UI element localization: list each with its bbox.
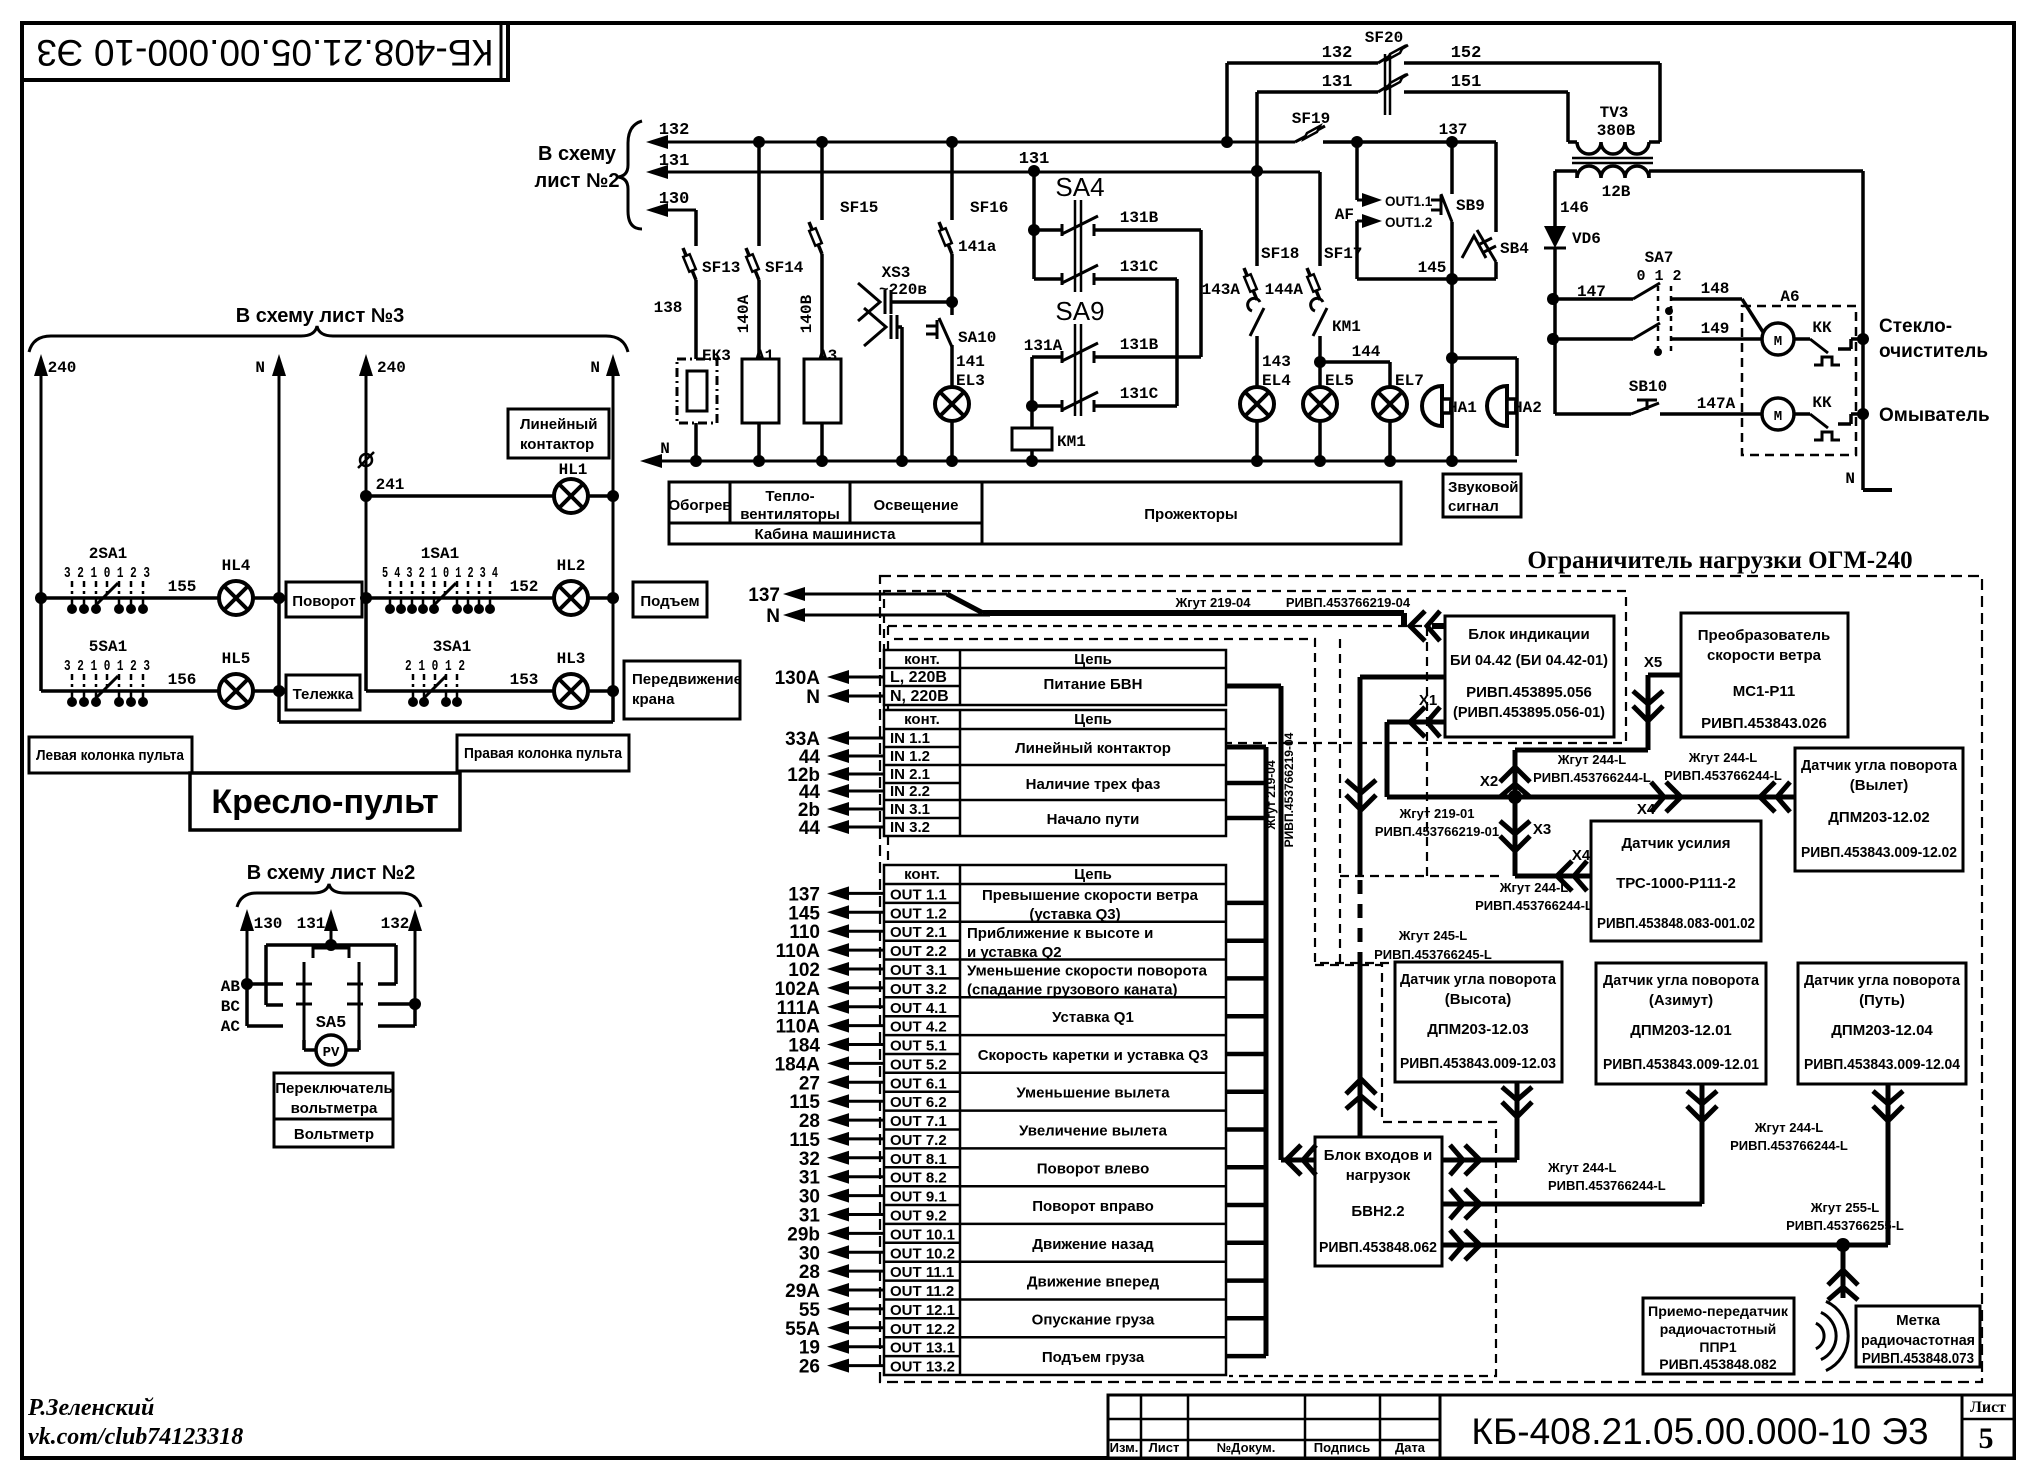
- svg-text:А3: А3: [818, 347, 837, 365]
- svg-text:149: 149: [1701, 320, 1730, 338]
- svg-text:152: 152: [1451, 44, 1482, 63]
- svg-text:Линейный: Линейный: [520, 416, 597, 433]
- svg-text:НА2: НА2: [1513, 399, 1542, 417]
- wire 132 bus: [662, 141, 1295, 144]
- svg-text:184: 184: [788, 1036, 820, 1057]
- svg-text:SF14: SF14: [765, 259, 804, 277]
- svg-text:OUT 9.1: OUT 9.1: [890, 1189, 947, 1206]
- break symbol on 240 bus: [358, 452, 374, 468]
- wire 145: [1357, 277, 1496, 281]
- svg-text:5 4 3 2 1 0 1 2 3 4: 5 4 3 2 1 0 1 2 3 4: [382, 565, 498, 582]
- connector X3: [1513, 797, 1518, 876]
- svg-text:SF20: SF20: [1365, 29, 1403, 47]
- wire N bus2: [612, 370, 615, 722]
- svg-text:РИВП.453766244-L: РИВП.453766244-L: [1730, 1138, 1848, 1153]
- svg-text:SB10: SB10: [1629, 378, 1667, 396]
- svg-text:№Докум.: №Докум.: [1217, 1440, 1276, 1455]
- breaker SF13: [694, 222, 698, 246]
- svg-text:102: 102: [788, 960, 820, 981]
- wire 151: [1404, 90, 1568, 94]
- svg-text:OUT 2.1: OUT 2.1: [890, 924, 947, 941]
- svg-text:В схему лист №2: В схему лист №2: [247, 862, 415, 884]
- svg-text:Жгут 244-L: Жгут 244-L: [1499, 880, 1569, 895]
- svg-text:130: 130: [659, 190, 690, 209]
- svg-text:OUT 12.2: OUT 12.2: [890, 1321, 955, 1338]
- angle sensor Put box: [1798, 963, 1966, 1084]
- svg-text:PV: PV: [323, 1045, 340, 1061]
- svg-text:В схему: В схему: [538, 143, 617, 165]
- dashed box C: [894, 639, 1502, 963]
- lamp EL4: [1240, 387, 1274, 421]
- node on 132 for SF15: [816, 136, 828, 148]
- node 131 for SA4: [1028, 165, 1040, 177]
- svg-text:SF13: SF13: [702, 259, 740, 277]
- svg-text:X3: X3: [1533, 821, 1551, 838]
- svg-text:Стекло-: Стекло-: [1879, 316, 1952, 337]
- svg-text:32: 32: [799, 1149, 820, 1170]
- svg-text:OUT 3.1: OUT 3.1: [890, 962, 947, 979]
- svg-text:131С: 131С: [1120, 258, 1159, 276]
- trolley mode box: [286, 675, 360, 710]
- svg-text:АС: АС: [221, 1018, 241, 1036]
- harness 219-04 lead: [947, 594, 983, 613]
- svg-text:ППР1: ППР1: [1699, 1339, 1736, 1355]
- svg-text:(Путь): (Путь): [1859, 992, 1905, 1009]
- svg-text:Опускание груза: Опускание груза: [1032, 1311, 1155, 1328]
- sheet code box (rotated title top-left): [22, 23, 508, 80]
- wire 12V secondary: [1575, 171, 1579, 178]
- svg-text:М: М: [1774, 334, 1782, 350]
- svg-text:РИВП.453766245-L: РИВП.453766245-L: [1374, 947, 1492, 962]
- breaker SF17: [1318, 172, 1322, 242]
- svg-text:КБ-408.21.05.00.000-10 Э3: КБ-408.21.05.00.000-10 Э3: [36, 32, 493, 73]
- svg-text:Ограничитель нагрузки ОГМ-240: Ограничитель нагрузки ОГМ-240: [1527, 547, 1912, 574]
- svg-text:OUT 3.2: OUT 3.2: [890, 981, 947, 998]
- button SB9: [1450, 142, 1454, 194]
- svg-text:Звуковой: Звуковой: [1448, 479, 1518, 496]
- linear contactor label box: [508, 409, 609, 458]
- svg-text:3 2 1 0 1 2 3: 3 2 1 0 1 2 3: [64, 658, 150, 675]
- svg-text:144: 144: [1352, 343, 1381, 361]
- svg-text:ЕК3: ЕК3: [702, 347, 731, 365]
- svg-text:OUT 8.1: OUT 8.1: [890, 1151, 947, 1168]
- svg-text:55А: 55А: [785, 1319, 820, 1340]
- svg-text:РИВП.453766219-04: РИВП.453766219-04: [1282, 732, 1296, 847]
- svg-text:РИВП.453843.026: РИВП.453843.026: [1701, 715, 1827, 732]
- svg-text:146: 146: [1560, 199, 1589, 217]
- svg-text:ТРС-1000-Р111-2: ТРС-1000-Р111-2: [1616, 875, 1736, 892]
- voltmeter PV: [316, 1035, 346, 1065]
- svg-text:132: 132: [381, 915, 410, 933]
- wire 149: [1672, 337, 1762, 341]
- svg-text:N: N: [255, 359, 265, 377]
- svg-text:Кресло-пульт: Кресло-пульт: [211, 783, 438, 821]
- thermal contact KK2: [1794, 412, 1810, 416]
- svg-text:нагрузок: нагрузок: [1346, 1167, 1411, 1184]
- svg-text:132: 132: [1322, 44, 1353, 63]
- svg-text:X4: X4: [1572, 847, 1591, 864]
- svg-text:N, 220В: N, 220В: [890, 688, 949, 705]
- svg-text:XS3: XS3: [882, 264, 911, 282]
- wire 132 to SF20: [1221, 136, 1233, 148]
- svg-text:МС1-Р11: МС1-Р11: [1733, 683, 1796, 700]
- svg-text:Блок индикации: Блок индикации: [1468, 626, 1590, 643]
- svg-text:29А: 29А: [785, 1281, 820, 1302]
- svg-text:SB9: SB9: [1456, 197, 1485, 215]
- svg-text:РИВП.453848.073: РИВП.453848.073: [1862, 1350, 1974, 1367]
- svg-text:SA7: SA7: [1645, 249, 1674, 267]
- svg-text:Прожекторы: Прожекторы: [1144, 506, 1237, 523]
- svg-text:РИВП.453843.009-12.04: РИВП.453843.009-12.04: [1804, 1056, 1961, 1073]
- svg-text:SF15: SF15: [840, 199, 878, 217]
- svg-text:140А: 140А: [735, 294, 753, 333]
- svg-text:Датчик угла поворота: Датчик угла поворота: [1603, 972, 1760, 989]
- sheet number box: [1961, 1395, 1964, 1458]
- svg-text:240: 240: [48, 359, 77, 377]
- wire N to OGM: [799, 614, 990, 617]
- svg-text:SA10: SA10: [958, 329, 996, 347]
- contactor coil KM1: [1030, 406, 1034, 428]
- wire 137 segment: [1323, 140, 1496, 144]
- svg-text:Датчик угла поворота: Датчик угла поворота: [1801, 757, 1958, 774]
- svg-text:HL2: HL2: [557, 557, 586, 575]
- svg-text:26: 26: [799, 1357, 820, 1378]
- svg-text:радиочастотная: радиочастотная: [1861, 1332, 1975, 1349]
- svg-text:Подъем груза: Подъем груза: [1042, 1349, 1145, 1366]
- svg-text:Дата: Дата: [1395, 1440, 1426, 1455]
- svg-text:OUT 10.2: OUT 10.2: [890, 1245, 955, 1262]
- svg-text:НА1: НА1: [1448, 399, 1477, 417]
- svg-text:31: 31: [799, 1168, 821, 1189]
- svg-text:Тепло-: Тепло-: [765, 488, 814, 505]
- svg-text:OUT1.1: OUT1.1: [1385, 194, 1433, 209]
- svg-text:27: 27: [799, 1073, 820, 1094]
- svg-text:N: N: [806, 687, 820, 708]
- wire 140A: [757, 280, 761, 359]
- svg-text:скорости ветра: скорости ветра: [1707, 647, 1822, 664]
- svg-text:Увеличение вылета: Увеличение вылета: [1019, 1123, 1168, 1140]
- svg-text:115: 115: [789, 1130, 820, 1151]
- svg-text:130: 130: [254, 915, 283, 933]
- svg-text:Уменьшение вылета: Уменьшение вылета: [1016, 1085, 1170, 1102]
- switch SA10: [950, 302, 954, 315]
- svg-text:Линейный контактор: Линейный контактор: [1015, 740, 1171, 757]
- svg-text:132: 132: [659, 121, 690, 140]
- svg-text:131А: 131А: [1024, 337, 1063, 355]
- svg-text:N: N: [1845, 470, 1855, 488]
- svg-text:131В: 131В: [1120, 336, 1159, 354]
- svg-text:Питание БВН: Питание БВН: [1044, 676, 1143, 693]
- heater EK3: [677, 359, 717, 423]
- svg-text:РИВП.453848.082: РИВП.453848.082: [1659, 1356, 1777, 1372]
- horn HA1: [1450, 358, 1454, 461]
- svg-text:3 2 1 0 1 2 3: 3 2 1 0 1 2 3: [64, 565, 150, 582]
- wire 148: [1672, 297, 1742, 301]
- wire 240 bus2: [365, 370, 368, 691]
- svg-text:3SA1: 3SA1: [433, 638, 471, 656]
- block A6 dashed: [1742, 306, 1856, 455]
- dashed box B: [888, 626, 1427, 881]
- svg-text:153: 153: [510, 671, 539, 689]
- svg-text:OUT 6.2: OUT 6.2: [890, 1094, 947, 1111]
- svg-text:контактор: контактор: [520, 436, 594, 453]
- svg-text:РИВП.453766219-01: РИВП.453766219-01: [1375, 824, 1499, 839]
- svg-text:вольтметра: вольтметра: [291, 1100, 378, 1117]
- svg-text:HL3: HL3: [557, 650, 586, 668]
- svg-text:Жгут 219-04: Жгут 219-04: [1174, 595, 1251, 610]
- svg-text:SB4: SB4: [1500, 240, 1529, 258]
- svg-text:РИВП.453843.009-12.03: РИВП.453843.009-12.03: [1400, 1055, 1556, 1072]
- svg-text:SF18: SF18: [1261, 245, 1299, 263]
- svg-text:Жгут 244-L: Жгут 244-L: [1688, 750, 1758, 765]
- svg-text:КК: КК: [1812, 319, 1832, 337]
- svg-text:РИВП.453766244-L: РИВП.453766244-L: [1475, 898, 1593, 913]
- svg-text:OUT 1.2: OUT 1.2: [890, 905, 947, 922]
- svg-text:L, 220В: L, 220В: [890, 669, 947, 686]
- crane travel box: [624, 661, 740, 719]
- svg-text:OUT 8.2: OUT 8.2: [890, 1170, 947, 1187]
- svg-text:РИВП.453843.009-12.01: РИВП.453843.009-12.01: [1603, 1056, 1759, 1073]
- svg-text:131С: 131С: [1120, 385, 1159, 403]
- svg-text:OUT 9.2: OUT 9.2: [890, 1207, 947, 1224]
- svg-text:OUT 12.1: OUT 12.1: [890, 1302, 955, 1319]
- svg-text:Скорость каретки и уставка Q3: Скорость каретки и уставка Q3: [978, 1047, 1209, 1064]
- switch SB4: [1494, 142, 1498, 232]
- svg-text:Поворот влево: Поворот влево: [1037, 1160, 1149, 1177]
- wire 152a: [510, 596, 554, 600]
- relay output AF: [1355, 142, 1359, 200]
- cab equipment table: [669, 482, 1401, 544]
- svg-text:КК: КК: [1812, 394, 1832, 412]
- svg-text:Правая колонка пульта: Правая колонка пульта: [464, 745, 623, 762]
- svg-text:156: 156: [168, 671, 197, 689]
- svg-text:Блок входов и: Блок входов и: [1324, 1147, 1432, 1164]
- svg-text:конт.: конт.: [904, 711, 940, 728]
- svg-text:Переключатель: Переключатель: [275, 1080, 393, 1097]
- svg-text:130А: 130А: [775, 668, 821, 689]
- svg-text:OUT 4.2: OUT 4.2: [890, 1019, 947, 1036]
- svg-text:А1: А1: [755, 347, 774, 365]
- svg-text:OUT 10.1: OUT 10.1: [890, 1226, 955, 1243]
- harness bus 219-04 vertical: [1226, 684, 1281, 689]
- wire N bus1: [278, 370, 281, 722]
- svg-text:Поворот вправо: Поворот вправо: [1032, 1198, 1154, 1215]
- svg-text:138: 138: [654, 299, 683, 317]
- svg-text:137: 137: [1439, 121, 1468, 139]
- svg-text:OUT 1.1: OUT 1.1: [890, 886, 947, 903]
- svg-text:184А: 184А: [775, 1054, 821, 1075]
- force sensor box: [1591, 821, 1761, 941]
- svg-text:Кабина машиниста: Кабина машиниста: [754, 526, 896, 543]
- svg-text:(Высота): (Высота): [1445, 991, 1511, 1008]
- svg-text:OUT 6.1: OUT 6.1: [890, 1075, 947, 1092]
- svg-text:X2: X2: [1480, 773, 1498, 790]
- contactor contact KM1.1: [1248, 298, 1260, 311]
- svg-text:Вольтметр: Вольтметр: [294, 1126, 374, 1143]
- svg-text:Передвижение: Передвижение: [632, 671, 742, 688]
- svg-text:28: 28: [799, 1262, 820, 1283]
- wire N right: [1861, 171, 1865, 490]
- svg-text:31: 31: [799, 1205, 821, 1226]
- breaker SF18: [1255, 171, 1259, 242]
- svg-text:OUT 11.2: OUT 11.2: [890, 1283, 954, 1300]
- svg-text:140В: 140В: [798, 294, 816, 333]
- sound signal box: [1443, 474, 1521, 517]
- svg-text:X4: X4: [1637, 801, 1656, 818]
- svg-text:IN 1.1: IN 1.1: [890, 730, 930, 747]
- svg-text:Датчик угла поворота: Датчик угла поворота: [1804, 972, 1961, 989]
- svg-text:Цепь: Цепь: [1074, 651, 1112, 668]
- harness X4 to Vylet: [1515, 795, 1795, 800]
- svg-text:Жгут 244-L: Жгут 244-L: [1557, 752, 1627, 767]
- svg-text:145: 145: [788, 903, 820, 924]
- svg-text:5: 5: [1979, 1422, 1994, 1455]
- svg-text:N: N: [766, 606, 780, 627]
- svg-text:Жгут 255-L: Жгут 255-L: [1810, 1200, 1880, 1215]
- node X2: [1508, 790, 1522, 804]
- svg-text:(Вылет): (Вылет): [1850, 777, 1908, 794]
- hoist mode box: [633, 582, 707, 617]
- svg-text:115: 115: [789, 1092, 820, 1113]
- wire 138: [694, 280, 698, 359]
- svg-text:137: 137: [788, 884, 820, 905]
- svg-text:SA4: SA4: [1055, 172, 1104, 202]
- wire 240 left bus: [40, 370, 43, 598]
- transceiver PPR1 box: [1643, 1298, 1794, 1374]
- svg-text:EL4: EL4: [1262, 372, 1291, 390]
- svg-text:OUT 5.2: OUT 5.2: [890, 1056, 947, 1073]
- svg-text:РИВП.453766219-04: РИВП.453766219-04: [1286, 595, 1411, 610]
- horn HA2: [1452, 356, 1517, 360]
- svg-text:Метка: Метка: [1896, 1312, 1940, 1329]
- svg-text:Поворот: Поворот: [292, 593, 355, 610]
- seat console box: [190, 773, 460, 830]
- wire 140B: [820, 254, 824, 359]
- wire 147A: [1660, 412, 1762, 416]
- svg-text:240: 240: [377, 359, 406, 377]
- svg-text:Превышение скорости ветра: Превышение скорости ветра: [982, 887, 1199, 904]
- svg-text:Уменьшение скорости поворота: Уменьшение скорости поворота: [967, 963, 1208, 980]
- svg-text:Движение назад: Движение назад: [1032, 1236, 1154, 1253]
- svg-text:55: 55: [799, 1300, 821, 1321]
- svg-text:(РИВП.453895.056-01): (РИВП.453895.056-01): [1453, 704, 1605, 721]
- diode VD6: [1544, 226, 1566, 248]
- svg-text:М: М: [1774, 409, 1782, 425]
- wire 130 up: [246, 925, 249, 984]
- wire 152: [1404, 61, 1660, 65]
- angle sensor Azimut box: [1596, 963, 1766, 1084]
- svg-text:РИВП.453766244-L: РИВП.453766244-L: [1548, 1178, 1666, 1193]
- svg-text:Лист: Лист: [1149, 1440, 1180, 1455]
- svg-text:IN 3.1: IN 3.1: [890, 801, 930, 818]
- block indication box: [1445, 616, 1614, 737]
- svg-text:РИВП.453848.083-001.02: РИВП.453848.083-001.02: [1597, 915, 1755, 932]
- voltmeter label box: [274, 1119, 393, 1147]
- svg-text:OUT 5.1: OUT 5.1: [890, 1038, 947, 1055]
- svg-text:Преобразователь: Преобразователь: [1698, 627, 1830, 644]
- connector table IN: [884, 710, 1226, 836]
- svg-text:131: 131: [1322, 73, 1353, 92]
- thermal contact KK1: [1794, 337, 1810, 341]
- svg-text:и уставка Q2: и уставка Q2: [967, 944, 1062, 961]
- wire 156: [162, 689, 218, 693]
- angle sensor Vylet box: [1795, 748, 1963, 871]
- svg-text:OUT 7.2: OUT 7.2: [890, 1132, 947, 1149]
- svg-text:IN 2.2: IN 2.2: [890, 783, 930, 800]
- svg-text:110А: 110А: [776, 941, 821, 962]
- svg-text:2SA1: 2SA1: [89, 545, 127, 563]
- svg-text:131: 131: [659, 152, 690, 171]
- svg-text:Жгут 245-L: Жгут 245-L: [1398, 928, 1468, 943]
- svg-text:КМ1: КМ1: [1057, 433, 1086, 451]
- svg-text:Жгут 244-L: Жгут 244-L: [1547, 1160, 1617, 1175]
- node PPR branch: [1836, 1238, 1850, 1252]
- svg-text:ДПМ203-12.02: ДПМ203-12.02: [1828, 809, 1930, 826]
- svg-text:28: 28: [799, 1111, 820, 1132]
- svg-text:137: 137: [748, 585, 780, 606]
- svg-text:148: 148: [1701, 280, 1730, 298]
- wire 131 up: [330, 925, 333, 945]
- svg-text:2 1 0 1 2: 2 1 0 1 2: [405, 658, 465, 675]
- svg-text:145: 145: [1418, 259, 1447, 277]
- breaker SF15: [820, 142, 824, 196]
- breaker SF16: [950, 142, 954, 196]
- wire N link: [611, 691, 615, 722]
- wire 141: [950, 345, 954, 387]
- svg-text:А6: А6: [1780, 288, 1799, 306]
- svg-text:131: 131: [297, 915, 326, 933]
- svg-text:(Азимут): (Азимут): [1649, 992, 1713, 1009]
- svg-text:155: 155: [168, 578, 197, 596]
- svg-text:131В: 131В: [1120, 209, 1159, 227]
- svg-text:Жгут 219-01: Жгут 219-01: [1398, 806, 1474, 821]
- svg-text:102А: 102А: [775, 979, 821, 1000]
- breaker SF14: [757, 142, 761, 222]
- angle sensor Vysota box: [1395, 962, 1562, 1082]
- harness to BI upper: [1360, 675, 1445, 680]
- radio waves: [1816, 1323, 1824, 1348]
- svg-text:БВН2.2: БВН2.2: [1351, 1203, 1404, 1220]
- svg-text:SF16: SF16: [970, 199, 1008, 217]
- svg-text:радиочастотный: радиочастотный: [1660, 1321, 1776, 1337]
- svg-text:Изм.: Изм.: [1110, 1440, 1139, 1455]
- contactor contact KM1.2: [1311, 298, 1323, 311]
- svg-text:Датчик усилия: Датчик усилия: [1621, 835, 1730, 852]
- wire 155: [162, 596, 218, 600]
- svg-text:SA9: SA9: [1055, 296, 1104, 326]
- motor M1 wiper: [1762, 323, 1794, 355]
- svg-text:Уставка Q1: Уставка Q1: [1052, 1009, 1134, 1026]
- svg-text:ВС: ВС: [221, 998, 241, 1016]
- svg-text:Р.Зеленский: Р.Зеленский: [27, 1395, 154, 1421]
- svg-text:Цепь: Цепь: [1074, 711, 1112, 728]
- svg-text:БИ 04.42 (БИ 04.42-01): БИ 04.42 (БИ 04.42-01): [1450, 652, 1608, 669]
- svg-text:Датчик угла поворота: Датчик угла поворота: [1400, 971, 1557, 988]
- svg-text:N: N: [590, 359, 600, 377]
- connector table PItanie BVN: [884, 650, 1226, 705]
- node on 132 for SF16: [946, 136, 958, 148]
- svg-text:HL5: HL5: [222, 650, 251, 668]
- right console box: [457, 735, 629, 771]
- svg-text:N: N: [660, 440, 670, 458]
- svg-text:Тележка: Тележка: [293, 686, 354, 703]
- svg-text:OUT 2.2: OUT 2.2: [890, 943, 947, 960]
- svg-text:КМ1: КМ1: [1332, 318, 1361, 336]
- dashed box D: [1229, 965, 1496, 1376]
- svg-text:12В: 12В: [1602, 183, 1631, 201]
- svg-text:Обогрев: Обогрев: [668, 497, 731, 514]
- lamp EL5: [1303, 387, 1337, 421]
